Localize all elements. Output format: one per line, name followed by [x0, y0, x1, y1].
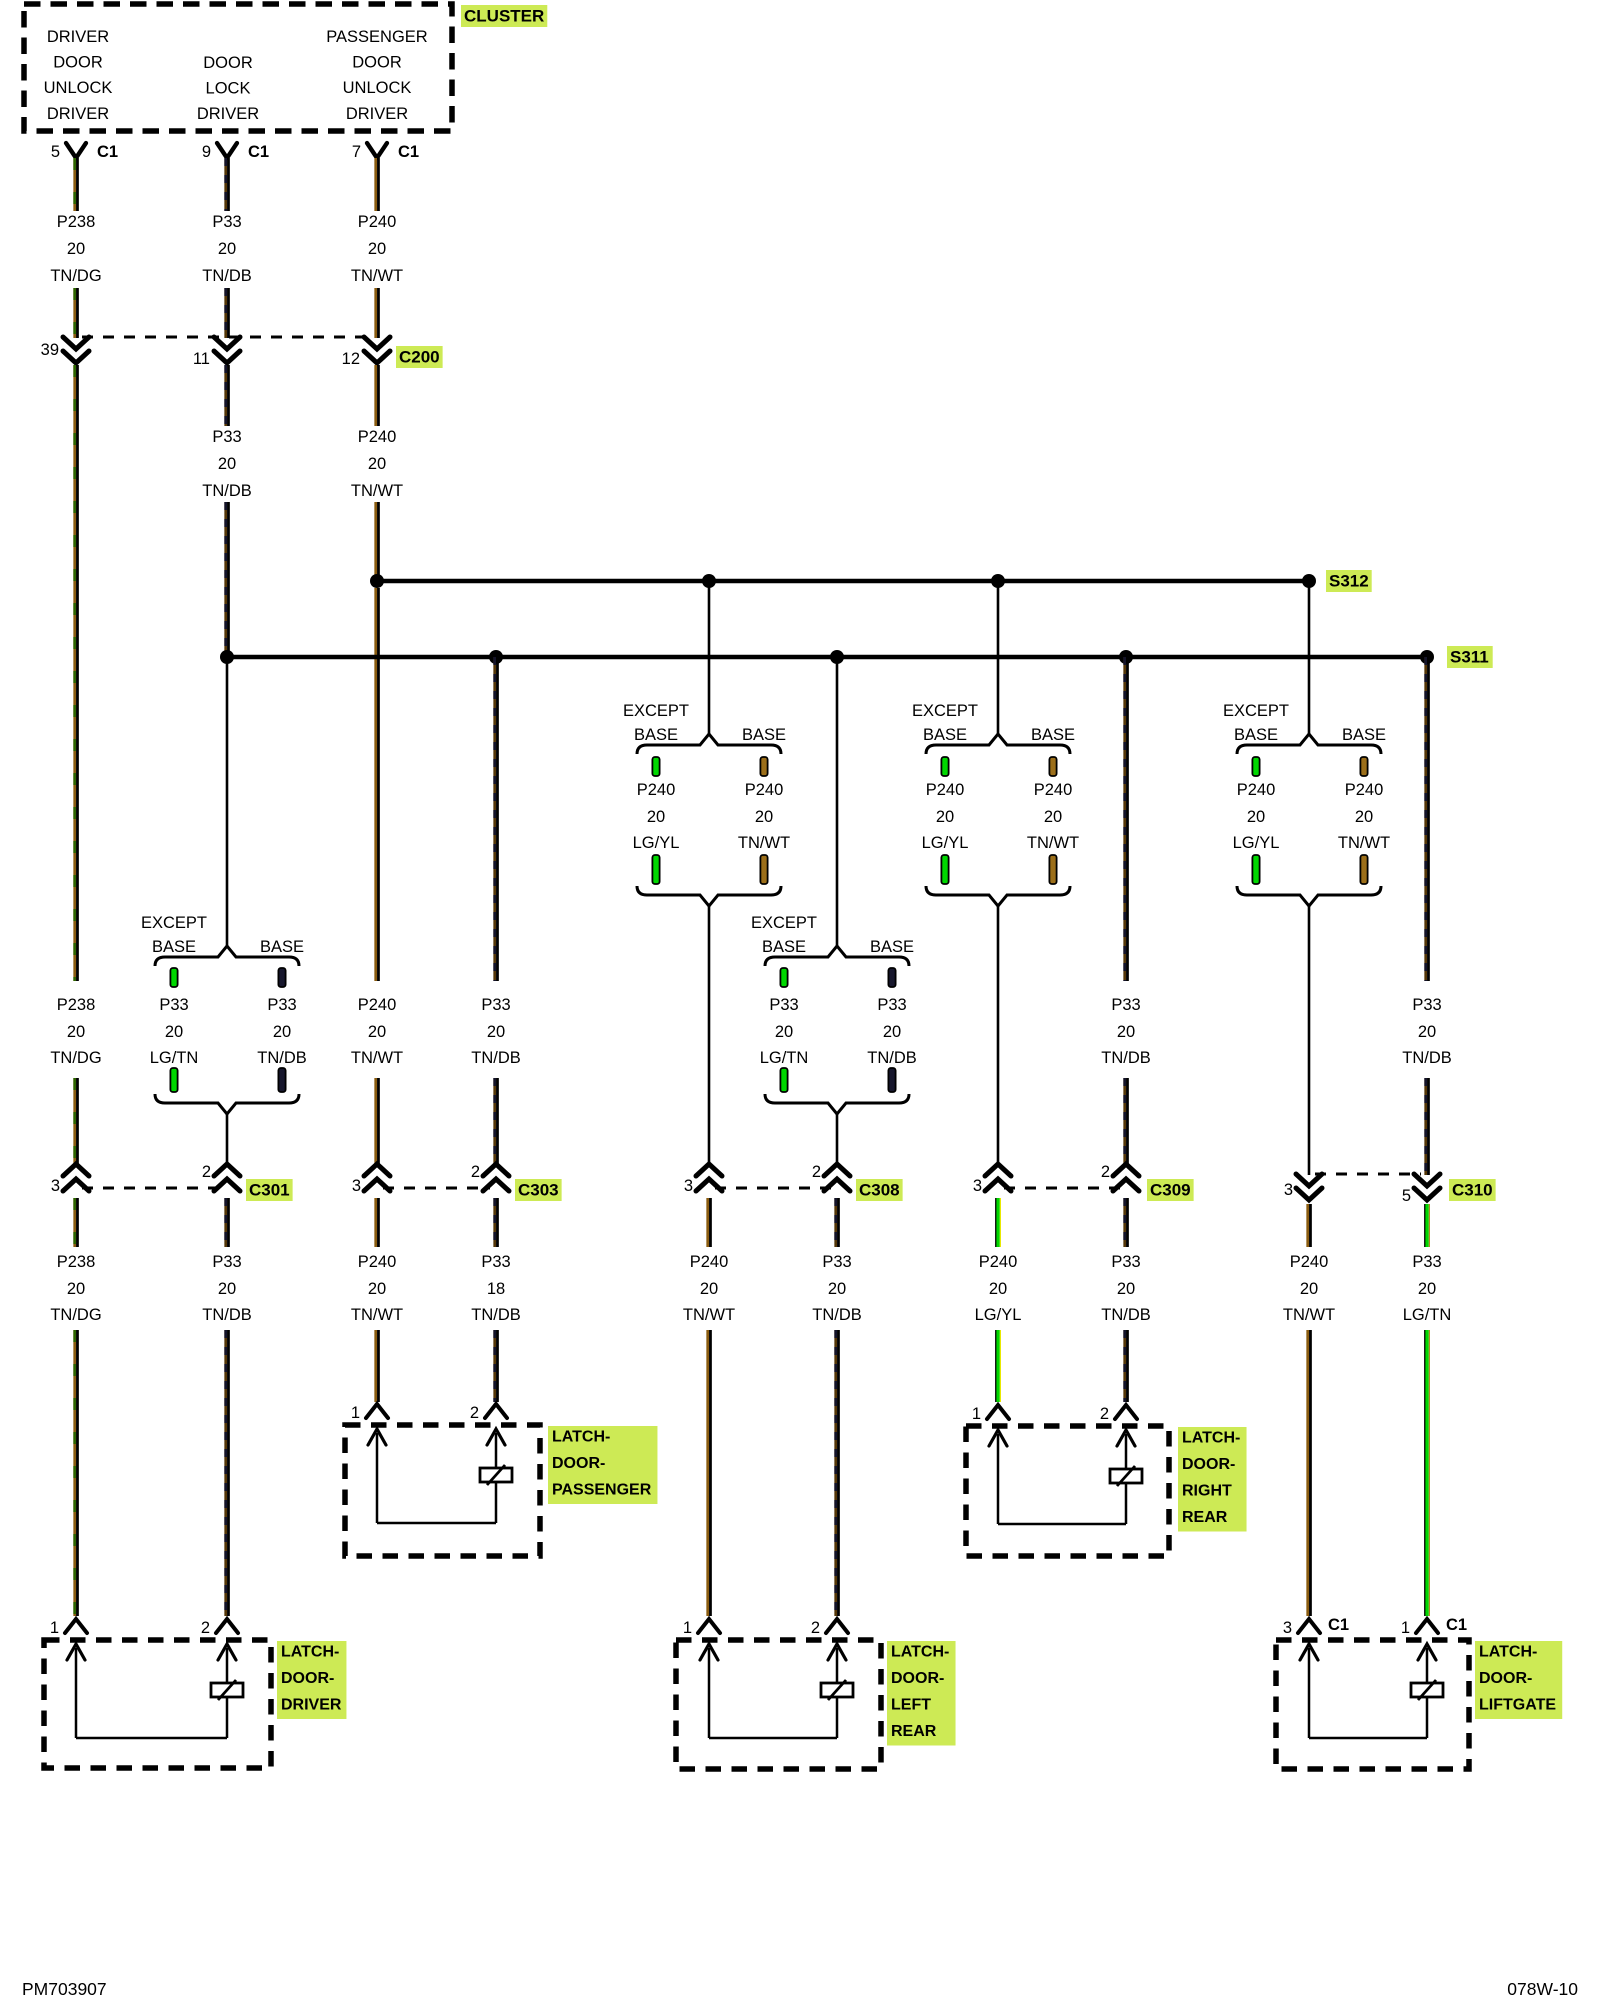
svg-text:C309: C309: [1150, 1181, 1191, 1200]
svg-text:20: 20: [273, 1023, 291, 1041]
svg-text:BASE: BASE: [260, 938, 304, 956]
svg-text:2: 2: [202, 1163, 211, 1181]
svg-text:20: 20: [1044, 808, 1062, 826]
svg-text:S311: S311: [1450, 648, 1489, 667]
connector C310: [1284, 1174, 1440, 1205]
svg-text:P240: P240: [358, 213, 397, 231]
connector C1 pin 7: [352, 143, 419, 161]
wire segment below connector at x=76: [75, 1198, 78, 1247]
svg-text:C200: C200: [399, 348, 440, 367]
wire P33 into C303: [495, 1078, 498, 1164]
svg-text:1: 1: [1401, 1619, 1410, 1637]
svg-text:DOOR: DOOR: [352, 54, 402, 72]
svg-text:20: 20: [67, 240, 85, 258]
svg-text:18: 18: [487, 1280, 505, 1298]
svg-text:P33: P33: [481, 996, 510, 1014]
svg-text:DRIVER: DRIVER: [346, 105, 408, 123]
wire segment into lower latch at x=227: [226, 1330, 229, 1616]
C301 label: [246, 1179, 293, 1201]
svg-text:P238: P238: [57, 213, 96, 231]
svg-text:P240: P240: [637, 781, 676, 799]
svg-text:P238: P238: [57, 996, 96, 1014]
svg-text:P240: P240: [690, 1253, 729, 1271]
svg-text:20: 20: [1355, 808, 1373, 826]
svg-text:20: 20: [368, 240, 386, 258]
wire P33 segment to C200: [226, 288, 229, 338]
C310 label: [1449, 1179, 1496, 1201]
svg-text:TN/DB: TN/DB: [1101, 1049, 1151, 1067]
svg-text:TN/DB: TN/DB: [257, 1049, 307, 1067]
latch door passenger box: [345, 1425, 540, 1556]
splice option group left rear P33: [751, 914, 917, 1114]
wire P33 branch from S311 to C309: [1125, 657, 1128, 981]
svg-text:3: 3: [51, 1177, 60, 1195]
svg-text:3: 3: [973, 1177, 982, 1195]
svg-text:P33: P33: [877, 996, 906, 1014]
connector C308: [684, 1163, 850, 1195]
svg-text:20: 20: [218, 1280, 236, 1298]
svg-text:P238: P238: [57, 1253, 96, 1271]
svg-text:20: 20: [775, 1023, 793, 1041]
svg-text:P33: P33: [212, 213, 241, 231]
svg-text:BASE: BASE: [1031, 726, 1075, 744]
svg-text:P33: P33: [267, 996, 296, 1014]
svg-text:20: 20: [67, 1280, 85, 1298]
wire branch from S311 to driver split: [226, 657, 229, 948]
latch door driver label: [277, 1641, 346, 1719]
cluster module box: [24, 4, 452, 131]
svg-text:LATCH-: LATCH-: [891, 1644, 949, 1661]
wire P238 20 TN/DG from cluster pin 5: [75, 158, 78, 211]
svg-text:PASSENGER: PASSENGER: [552, 1482, 652, 1499]
svg-text:LG/TN: LG/TN: [760, 1049, 809, 1067]
svg-text:9: 9: [202, 143, 211, 161]
connector C309: [973, 1163, 1139, 1195]
svg-text:BASE: BASE: [923, 726, 967, 744]
svg-text:3: 3: [684, 1177, 693, 1195]
svg-text:BASE: BASE: [1342, 726, 1386, 744]
svg-text:20: 20: [647, 808, 665, 826]
svg-text:TN/DG: TN/DG: [50, 1049, 101, 1067]
latch door liftgate pins: [1283, 1616, 1467, 1637]
svg-text:RIGHT: RIGHT: [1182, 1483, 1232, 1500]
latch door left rear label: [887, 1641, 956, 1746]
svg-text:20: 20: [1117, 1023, 1135, 1041]
wire P238 into C301: [75, 1078, 78, 1164]
wire P33 branch from S311 to C303: [495, 657, 498, 981]
svg-text:20: 20: [218, 455, 236, 473]
svg-text:TN/WT: TN/WT: [1283, 1306, 1335, 1324]
svg-text:20: 20: [165, 1023, 183, 1041]
splice option group right rear P240: [912, 702, 1079, 906]
wire merged branch below right rear P240: [997, 906, 1000, 1164]
latch door liftgate label: [1475, 1641, 1562, 1719]
svg-text:P33: P33: [1412, 996, 1441, 1014]
latch door right rear box: [966, 1426, 1169, 1556]
cluster label: [461, 5, 547, 27]
splice option group left rear P240: [623, 702, 790, 906]
wire branch from S311 to left-rear split: [836, 657, 839, 948]
C308 label: [856, 1179, 903, 1201]
splice S311 bus: [220, 650, 1434, 664]
latch door left rear pins: [683, 1619, 848, 1637]
wire P33 20 TN/DB from cluster pin 9: [226, 158, 229, 211]
svg-text:20: 20: [218, 240, 236, 258]
latch door right rear label: [1178, 1427, 1247, 1532]
svg-text:BASE: BASE: [634, 726, 678, 744]
svg-text:3: 3: [1283, 1619, 1292, 1637]
wire P240 into C303: [376, 1078, 379, 1164]
svg-text:20: 20: [1247, 808, 1265, 826]
svg-text:TN/DB: TN/DB: [867, 1049, 917, 1067]
svg-text:2: 2: [470, 1404, 479, 1422]
wire segment into lower latch at x=837: [836, 1330, 839, 1616]
svg-text:TN/WT: TN/WT: [351, 1306, 403, 1324]
svg-text:TN/DB: TN/DB: [1101, 1306, 1151, 1324]
latch door left rear internal switch: [700, 1644, 853, 1738]
svg-text:TN/DB: TN/DB: [202, 267, 252, 285]
svg-text:P240: P240: [358, 428, 397, 446]
wire segment below connector at x=377: [376, 1198, 379, 1247]
svg-text:TN/DB: TN/DB: [471, 1049, 521, 1067]
svg-text:PASSENGER: PASSENGER: [326, 28, 428, 46]
svg-text:TN/WT: TN/WT: [351, 267, 403, 285]
svg-text:7: 7: [352, 143, 361, 161]
svg-text:P240: P240: [1237, 781, 1276, 799]
wire P240 segment below C200: [376, 365, 379, 426]
svg-text:20: 20: [368, 1023, 386, 1041]
wire branch from S312 to left-rear split: [708, 581, 711, 736]
latch door passenger internal switch: [368, 1429, 512, 1523]
svg-text:TN/DB: TN/DB: [471, 1306, 521, 1324]
svg-text:EXCEPT: EXCEPT: [623, 702, 689, 720]
svg-text:LIFTGATE: LIFTGATE: [1479, 1697, 1556, 1714]
latch door passenger pins: [351, 1404, 507, 1422]
svg-text:20: 20: [936, 808, 954, 826]
svg-text:P240: P240: [745, 781, 784, 799]
svg-text:LG/TN: LG/TN: [1403, 1306, 1452, 1324]
svg-text:1: 1: [50, 1619, 59, 1637]
svg-text:20: 20: [883, 1023, 901, 1041]
wire P240 segment to C200: [376, 288, 379, 338]
svg-text:DRIVER: DRIVER: [47, 28, 109, 46]
latch door right rear pins: [972, 1405, 1137, 1423]
svg-text:C1: C1: [248, 143, 269, 161]
latch door liftgate internal switch: [1300, 1644, 1443, 1738]
wire merged branch below left rear P33: [836, 1114, 839, 1164]
svg-text:11: 11: [193, 350, 210, 368]
latch door right rear internal switch: [989, 1430, 1142, 1524]
svg-text:C301: C301: [249, 1181, 290, 1200]
svg-text:20: 20: [989, 1280, 1007, 1298]
svg-text:TN/DB: TN/DB: [202, 482, 252, 500]
svg-text:20: 20: [1300, 1280, 1318, 1298]
svg-text:P33: P33: [1412, 1253, 1441, 1271]
svg-text:2: 2: [812, 1163, 821, 1181]
svg-text:LG/YL: LG/YL: [1233, 834, 1280, 852]
svg-text:LATCH-: LATCH-: [281, 1644, 339, 1661]
svg-text:DRIVER: DRIVER: [47, 105, 109, 123]
svg-text:TN/WT: TN/WT: [351, 482, 403, 500]
svg-text:C310: C310: [1452, 1181, 1493, 1200]
svg-text:P240: P240: [358, 1253, 397, 1271]
svg-text:20: 20: [1117, 1280, 1135, 1298]
wire segment into lower latch at x=1427: [1425, 1330, 1430, 1616]
svg-text:TN/WT: TN/WT: [1027, 834, 1079, 852]
svg-text:P33: P33: [769, 996, 798, 1014]
svg-text:PM703907: PM703907: [22, 1979, 107, 1999]
wire segment below connector at x=837: [836, 1198, 839, 1247]
svg-text:P240: P240: [926, 781, 965, 799]
svg-text:20: 20: [487, 1023, 505, 1041]
svg-text:DOOR-: DOOR-: [1479, 1670, 1532, 1687]
latch door driver internal switch: [67, 1644, 243, 1738]
svg-text:TN/DG: TN/DG: [50, 1306, 101, 1324]
svg-text:20: 20: [700, 1280, 718, 1298]
wire segment into upper latch at x=377: [376, 1330, 379, 1402]
svg-text:UNLOCK: UNLOCK: [44, 79, 113, 97]
svg-text:TN/WT: TN/WT: [1338, 834, 1390, 852]
latch door driver box: [44, 1640, 271, 1768]
S311 label: [1447, 646, 1493, 668]
svg-text:EXCEPT: EXCEPT: [751, 914, 817, 932]
svg-text:3: 3: [1284, 1181, 1293, 1199]
svg-text:BASE: BASE: [1234, 726, 1278, 744]
svg-text:DRIVER: DRIVER: [197, 105, 259, 123]
svg-text:P33: P33: [212, 428, 241, 446]
svg-text:1: 1: [351, 1404, 360, 1422]
wire segment below connector at x=1427: [1425, 1204, 1430, 1247]
wire merged branch below driver P33: [226, 1114, 229, 1164]
svg-text:REAR: REAR: [1182, 1509, 1228, 1526]
svg-text:P240: P240: [1034, 781, 1073, 799]
svg-text:C308: C308: [859, 1181, 900, 1200]
svg-text:3: 3: [352, 1177, 361, 1195]
svg-text:TN/DB: TN/DB: [812, 1306, 862, 1324]
svg-text:TN/WT: TN/WT: [738, 834, 790, 852]
svg-text:20: 20: [368, 1280, 386, 1298]
svg-text:LOCK: LOCK: [206, 80, 251, 98]
latch door passenger label: [548, 1426, 657, 1504]
svg-text:DOOR-: DOOR-: [1182, 1456, 1235, 1473]
svg-text:12: 12: [342, 350, 360, 368]
svg-text:DOOR-: DOOR-: [281, 1670, 334, 1687]
connector C301: [51, 1163, 240, 1195]
svg-text:20: 20: [828, 1280, 846, 1298]
svg-text:P240: P240: [979, 1253, 1018, 1271]
svg-text:DOOR: DOOR: [203, 54, 253, 72]
svg-text:39: 39: [41, 341, 59, 359]
wire segment below connector at x=496: [495, 1198, 498, 1247]
svg-text:EXCEPT: EXCEPT: [141, 914, 207, 932]
svg-text:20: 20: [1418, 1280, 1436, 1298]
svg-text:EXCEPT: EXCEPT: [912, 702, 978, 720]
svg-text:P33: P33: [159, 996, 188, 1014]
wire segment below connector at x=227: [226, 1198, 229, 1247]
wire P33 into C309: [1125, 1078, 1128, 1164]
svg-text:LATCH-: LATCH-: [552, 1429, 610, 1446]
wire branch from S312 to liftgate split: [1308, 581, 1311, 736]
connector C1 pin 5: [51, 143, 118, 161]
splice S312 bus: [370, 574, 1316, 588]
svg-text:5: 5: [1402, 1187, 1411, 1205]
svg-text:5: 5: [51, 143, 60, 161]
svg-text:2: 2: [201, 1619, 210, 1637]
svg-text:TN/WT: TN/WT: [683, 1306, 735, 1324]
wire segment into lower latch at x=1309: [1308, 1330, 1311, 1616]
svg-text:P240: P240: [1345, 781, 1384, 799]
svg-text:2: 2: [471, 1163, 480, 1181]
wire P240 segment below S312 to C303: [376, 588, 379, 981]
svg-text:BASE: BASE: [152, 938, 196, 956]
svg-text:C1: C1: [97, 143, 118, 161]
svg-text:078W-10: 078W-10: [1507, 1979, 1578, 1999]
svg-text:P33: P33: [481, 1253, 510, 1271]
splice option group driver P33: [141, 914, 307, 1114]
svg-text:LATCH-: LATCH-: [1479, 1644, 1537, 1661]
svg-text:P240: P240: [358, 996, 397, 1014]
wire branch from S312 to right-rear split: [997, 581, 1000, 736]
svg-text:P33: P33: [822, 1253, 851, 1271]
svg-text:20: 20: [1418, 1023, 1436, 1041]
svg-text:C1: C1: [1328, 1616, 1349, 1634]
svg-text:C1: C1: [398, 143, 419, 161]
latch door driver pins: [50, 1619, 238, 1637]
svg-text:20: 20: [67, 1023, 85, 1041]
svg-text:LG/YL: LG/YL: [922, 834, 969, 852]
svg-text:1: 1: [972, 1405, 981, 1423]
svg-text:TN/WT: TN/WT: [351, 1049, 403, 1067]
svg-text:C1: C1: [1446, 1616, 1467, 1634]
svg-text:LATCH-: LATCH-: [1182, 1430, 1240, 1447]
connector C1 pin 9: [202, 143, 269, 161]
svg-text:2: 2: [1100, 1405, 1109, 1423]
wire P238 segment to C200: [75, 288, 78, 338]
wire segment into upper latch at x=1126: [1125, 1330, 1128, 1402]
svg-text:P33: P33: [1111, 1253, 1140, 1271]
svg-text:UNLOCK: UNLOCK: [343, 79, 412, 97]
svg-text:S312: S312: [1329, 572, 1369, 591]
svg-text:C303: C303: [518, 1181, 559, 1200]
svg-text:LEFT: LEFT: [891, 1697, 931, 1714]
svg-text:P240: P240: [1290, 1253, 1329, 1271]
svg-text:20: 20: [368, 455, 386, 473]
S312 label: [1326, 570, 1372, 592]
svg-text:CLUSTER: CLUSTER: [464, 7, 544, 26]
wire segment into lower latch at x=709: [708, 1330, 711, 1616]
svg-text:P33: P33: [1111, 996, 1140, 1014]
connector C303: [352, 1163, 509, 1195]
wire P33 into C310: [1426, 1078, 1429, 1175]
svg-text:20: 20: [755, 808, 773, 826]
svg-text:DOOR: DOOR: [53, 54, 103, 72]
wire merged branch below liftgate P240: [1308, 906, 1311, 1175]
svg-text:LG/TN: LG/TN: [150, 1049, 199, 1067]
C200 label: [396, 346, 443, 368]
svg-text:TN/DG: TN/DG: [50, 267, 101, 285]
latch door left rear box: [676, 1640, 881, 1769]
svg-text:EXCEPT: EXCEPT: [1223, 702, 1289, 720]
C303 label: [515, 1179, 562, 1201]
svg-text:2: 2: [811, 1619, 820, 1637]
wire P240 20 TN/WT from cluster pin 7: [376, 158, 379, 211]
svg-text:DRIVER: DRIVER: [281, 1697, 342, 1714]
svg-text:DOOR-: DOOR-: [891, 1670, 944, 1687]
svg-text:TN/DB: TN/DB: [202, 1306, 252, 1324]
wire segment below connector at x=1126: [1125, 1198, 1128, 1247]
splice option group liftgate P240: [1223, 702, 1390, 906]
svg-text:P33: P33: [212, 1253, 241, 1271]
svg-text:BASE: BASE: [742, 726, 786, 744]
latch door liftgate box: [1276, 1640, 1469, 1769]
wire P240 segment to splice S312: [376, 502, 379, 576]
C309 label: [1147, 1179, 1194, 1201]
wire P33 segment to splice S311: [226, 502, 229, 657]
wire segment into lower latch at x=76: [75, 1330, 78, 1616]
wire segment into upper latch at x=496: [495, 1330, 498, 1402]
wire P33 branch from S311 to C310: [1426, 657, 1429, 981]
wire segment into upper latch at x=998: [996, 1330, 1001, 1402]
svg-text:BASE: BASE: [762, 938, 806, 956]
svg-text:REAR: REAR: [891, 1723, 937, 1740]
svg-text:BASE: BASE: [870, 938, 914, 956]
svg-text:2: 2: [1101, 1163, 1110, 1181]
svg-text:LG/YL: LG/YL: [975, 1306, 1022, 1324]
connector C200: [41, 337, 390, 368]
wire P33 segment below C200: [226, 365, 229, 426]
wire P238 long run to C301: [75, 365, 78, 981]
svg-text:1: 1: [683, 1619, 692, 1637]
wire segment below connector at x=709: [708, 1198, 711, 1247]
svg-text:TN/DB: TN/DB: [1402, 1049, 1452, 1067]
svg-text:LG/YL: LG/YL: [633, 834, 680, 852]
wire segment below connector at x=1309: [1308, 1204, 1311, 1247]
svg-text:DOOR-: DOOR-: [552, 1455, 605, 1472]
wire merged branch below left rear P240: [708, 906, 711, 1164]
wire segment below connector at x=998: [996, 1198, 1001, 1247]
